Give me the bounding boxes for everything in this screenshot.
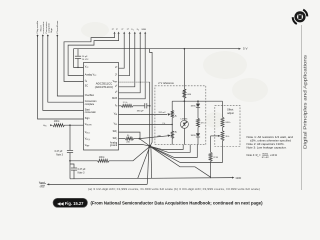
svg-text:100 k: 100 k: [99, 157, 105, 159]
capacitor C3 plate 2: [67, 152, 73, 154]
arrowhead control x57.3: [56, 35, 58, 37]
svg-text:390 pF: 390 pF: [137, 110, 144, 112]
svg-text:10 µF: 10 µF: [82, 56, 88, 58]
wire R7 bottom: [222, 141, 224, 144]
wire SW1: [119, 132, 141, 139]
wire chain middle: [171, 118, 173, 131]
svg-text:R1+R2: R1+R2: [262, 157, 270, 159]
wire VREF vertical to star ground: [149, 82, 151, 146]
svg-text:Note 4: R: Note 4: R: [247, 153, 258, 157]
diode D3 LM336 circle: [180, 120, 188, 128]
wire fIN staircase to arrow 2^0: [64, 34, 115, 82]
wire C2 to node: [147, 105, 150, 107]
wire ray 22M ground: [150, 146, 211, 177]
capacitor C1 plate 1: [75, 55, 81, 57]
wire R8 to ground rail: [210, 161, 212, 178]
capacitor C4 bottom stub: [73, 170, 75, 178]
capacitor C2 plate 1: [144, 103, 146, 108]
svg-text:Note 2: All capacitors ±10%.: Note 2: All capacitors ±10%.: [247, 142, 285, 146]
wire output D2 to top arrow: [119, 34, 141, 93]
junction VIN+ cap: [69, 124, 71, 126]
svg-text:complete: complete: [47, 22, 50, 33]
capacitor C1 stub bottom: [77, 59, 79, 68]
svg-text:Note 3: Note 3: [56, 154, 63, 157]
wire C4 branch: [70, 164, 74, 168]
wire LM336 to box bottom: [183, 128, 185, 144]
wire R6 to R7: [222, 127, 224, 130]
svg-text:Digital Principles and Applica: Digital Principles and Applications: [303, 54, 308, 149]
wire chain top: [171, 101, 173, 110]
wire Vcc pin to +5V rail: [74, 49, 84, 68]
svg-text:Note 3: Note 3: [78, 172, 85, 175]
resistor R5 47k: [197, 118, 200, 127]
wire star to ground rail right leg: [150, 146, 153, 178]
wire control line x42.8: [43, 35, 84, 111]
arrowhead +5V: [239, 48, 241, 50]
wire ray chain ground: [150, 145, 190, 153]
wire R7 wiper to R8: [211, 135, 219, 137]
star ground junction: [149, 145, 152, 148]
wire D2 to box bottom: [197, 137, 199, 145]
svg-text:Conversion: Conversion: [85, 100, 97, 103]
resistor R3 100k: [98, 159, 110, 162]
svg-text:(From National Semiconductor D: (From National Semiconductor Data Acquis…: [91, 201, 263, 206]
arrowhead D2: [139, 32, 141, 34]
wire output 2^3 to top arrow: [119, 34, 130, 76]
resistor R2 1.1k: [121, 104, 133, 107]
svg-text:complete: complete: [85, 103, 95, 106]
wire R2 to C2: [133, 105, 144, 107]
svg-text:±5%, unless otherwise specifie: ±5%, unless otherwise specified: [250, 139, 291, 143]
arrowhead GND: [232, 177, 234, 179]
arrowhead trimpot A1 wiper: [168, 113, 171, 115]
wire chain bottom: [171, 138, 173, 144]
svg-text:5 V: 5 V: [243, 46, 248, 50]
capacitor C3 bottom stub: [69, 153, 71, 179]
wire +5V rail: [74, 48, 240, 50]
arrowhead 2^1: [118, 32, 120, 34]
junction node diode branch: [197, 100, 199, 102]
junction VSS chain: [172, 124, 173, 125]
wire R5 to D2: [197, 127, 199, 133]
wire VSS to reference chain: [119, 124, 173, 126]
trimpot A2: [171, 131, 174, 139]
reference node line: [172, 100, 222, 102]
diode D1 1N914: [196, 104, 200, 108]
svg-text:SC: SC: [85, 86, 89, 88]
svg-text:LM336: LM336: [181, 118, 188, 120]
publisher logo: [293, 10, 308, 24]
svg-text:GND: GND: [236, 177, 242, 180]
arrowhead 2^0: [114, 32, 116, 34]
svg-text:Overflow: Overflow: [56, 20, 59, 34]
diode D2 1N914: [196, 133, 200, 137]
capacitor C2 plate 2: [146, 103, 148, 108]
svg-text:Analog: Analog: [110, 141, 118, 144]
note 4 formula: [247, 153, 278, 159]
resistor R1 100k input: [53, 124, 65, 127]
wire SW node to star: [139, 139, 150, 147]
svg-text:GND: GND: [40, 186, 45, 188]
svg-text:≤10 Ω: ≤10 Ω: [270, 153, 277, 157]
IC U1 ADC3511CC body: [84, 63, 119, 151]
svg-text:Note 1: All resistors 1/4 watt: Note 1: All resistors 1/4 watt, and: [247, 135, 294, 139]
wire C3 node to R3: [70, 160, 98, 162]
wire trimpot A2 wiper: [139, 136, 168, 139]
svg-text:adjust: adjust: [227, 112, 234, 115]
wire R4 to node: [183, 98, 185, 101]
svg-text:22 M: 22 M: [213, 157, 218, 159]
resistor R6 240k: [221, 117, 224, 127]
svg-text:332 mV: 332 mV: [158, 112, 166, 114]
sidebar rule: [301, 25, 303, 190]
signal ground connector: [40, 184, 47, 186]
junction node LM336: [184, 100, 186, 102]
svg-text:Overflow: Overflow: [85, 94, 94, 97]
junction C3 to R3: [69, 160, 71, 162]
junction +5V to reference: [184, 48, 186, 50]
wire node to LM336: [183, 101, 185, 120]
wire fIN pin: [119, 105, 122, 107]
svg-text:0.47 µF: 0.47 µF: [78, 169, 86, 171]
2V reference dashed box: [155, 86, 206, 145]
wire control line x57.3: [57, 35, 83, 96]
svg-text:ground: ground: [110, 144, 118, 147]
wire wiper down to R8: [210, 136, 212, 152]
wire D1 to R5: [197, 107, 199, 118]
arrowhead eIN: [50, 124, 52, 126]
wire ray offset ground: [150, 144, 223, 163]
wire control line x47.8: [48, 35, 84, 103]
arrowhead R7 wiper: [218, 135, 221, 137]
svg-text:Signal: Signal: [39, 182, 46, 184]
svg-text:Start: Start: [85, 108, 90, 111]
wire +5V to R4: [183, 49, 185, 89]
arrowhead control x47.8: [47, 35, 49, 37]
svg-text:0.47 µF: 0.47 µF: [55, 151, 63, 153]
diode D3 LM336 zener glyph: [183, 123, 186, 126]
potentiometer R7 39k: [221, 131, 224, 141]
wire VREF dotted: [119, 81, 150, 83]
wire output 2^2 to top arrow: [119, 34, 125, 68]
junction SW node: [139, 138, 141, 140]
wire star to ground rail left leg: [147, 146, 149, 184]
svg-text:100 k: 100 k: [54, 121, 60, 123]
svg-text:(a) 3 1/2-digit A/D; ±1,999 co: (a) 3 1/2-digit A/D; ±1,999 counts, ±1.9…: [88, 187, 260, 191]
svg-text:MUX: MUX: [112, 98, 118, 100]
svg-text:Chip enable: Chip enable: [37, 20, 39, 34]
wire diode branch top: [197, 101, 199, 103]
arrowhead 2^2: [123, 32, 125, 34]
capacitor C4 plate 2: [71, 169, 77, 171]
resistor Rx 240: [125, 137, 133, 140]
svg-text:conversion: conversion: [42, 21, 45, 34]
wire R3 to star: [109, 146, 150, 160]
wire node line into offset box: [222, 101, 224, 117]
wire Analog Vcc staircase to arrow 2^1: [68, 34, 119, 76]
ground rail: [70, 178, 232, 179]
arrowhead 2^3: [129, 32, 131, 34]
wire Rx to junction: [134, 138, 140, 140]
wire control line x37.5: [38, 35, 84, 119]
wire SW2 pin: [119, 138, 126, 140]
svg-text:2 V reference: 2 V reference: [158, 81, 174, 85]
arrowhead D1: [134, 32, 136, 34]
svg-text:◀◀ Fig. 15.27: ◀◀ Fig. 15.27: [56, 201, 84, 206]
svg-text:1N914: 1N914: [190, 105, 197, 107]
arrowhead MSB: [144, 32, 146, 34]
svg-text:conversion: conversion: [85, 111, 97, 114]
trimpot A1: [171, 110, 174, 118]
resistor R4 680: [183, 89, 186, 98]
arrowhead control x37.5: [37, 35, 39, 37]
wire ray diode ground: [150, 145, 197, 158]
wire R1 to VIN+ node: [64, 124, 83, 126]
wire VFB to trimpot A1 wiper: [119, 114, 168, 116]
wire ray LM336 ground: [150, 145, 183, 150]
arrowhead trimpot A2 wiper: [168, 135, 171, 137]
wire from +5V rail jog down to star: [150, 49, 153, 146]
svg-text:(ADC3711CC): (ADC3711CC): [95, 85, 113, 89]
junction fIN node: [149, 105, 151, 107]
svg-text:MSB: MSB: [142, 29, 147, 31]
capacitor C3 top stub: [69, 125, 71, 150]
wire output MSB to top arrow: [119, 34, 146, 99]
junction C1 to Vcc wire: [77, 67, 78, 68]
svg-text:1N914: 1N914: [190, 135, 197, 137]
wire analog ground to star: [119, 145, 150, 147]
capacitor C1 plate 2: [75, 57, 81, 59]
svg-text:Note 3: Low leakage capacitor.: Note 3: Low leakage capacitor.: [247, 145, 287, 149]
wire output D1 to top arrow: [119, 34, 135, 87]
wire star to rail left: [138, 146, 150, 178]
capacitor C1 stub top: [77, 49, 79, 56]
capacitor C3 plate 1: [67, 149, 73, 151]
signal ground line: [49, 183, 147, 185]
svg-text:Sign: Sign: [85, 118, 90, 120]
offset adjust dashed box: [215, 106, 240, 147]
caption figure pill Fig. 15.27: [53, 198, 88, 207]
arrowhead signal ground: [47, 183, 50, 185]
resistor R8 22M: [209, 152, 212, 161]
capacitor C4 plate 1: [71, 167, 77, 169]
arrowhead control x42.8: [42, 35, 44, 37]
